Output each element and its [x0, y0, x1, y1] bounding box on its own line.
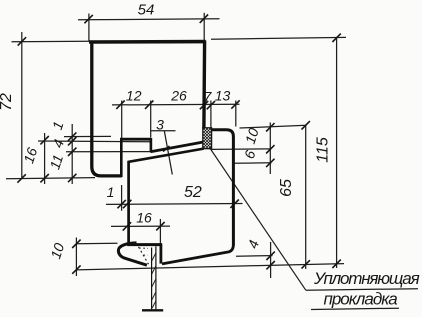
svg-text:26: 26 — [170, 88, 187, 104]
svg-text:Уплотняющая: Уплотняющая — [313, 269, 420, 288]
svg-text:4: 4 — [244, 238, 262, 251]
svg-text:12: 12 — [126, 88, 142, 104]
svg-text:16: 16 — [136, 210, 152, 226]
svg-text:13: 13 — [215, 88, 231, 104]
svg-text:4: 4 — [49, 137, 67, 150]
svg-text:10: 10 — [47, 241, 67, 261]
svg-text:65: 65 — [278, 179, 295, 197]
svg-text:11: 11 — [46, 153, 66, 172]
svg-text:3: 3 — [156, 117, 164, 133]
svg-text:7: 7 — [204, 89, 213, 105]
svg-text:6: 6 — [241, 148, 259, 161]
svg-text:52: 52 — [184, 184, 202, 201]
svg-text:16: 16 — [20, 145, 40, 165]
svg-text:прокладка: прокладка — [324, 290, 398, 309]
svg-text:115: 115 — [315, 137, 332, 163]
svg-text:54: 54 — [138, 2, 155, 19]
svg-text:10: 10 — [242, 126, 262, 146]
svg-text:72: 72 — [0, 93, 15, 111]
svg-text:1: 1 — [107, 184, 115, 200]
svg-text:1: 1 — [49, 119, 67, 131]
